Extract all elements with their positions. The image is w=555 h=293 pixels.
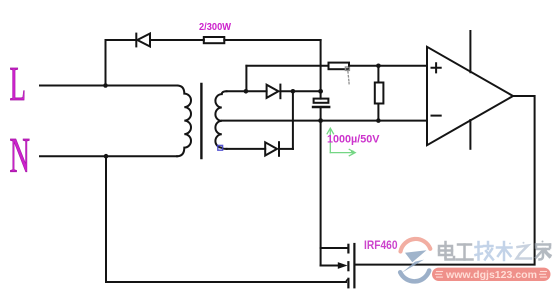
transformer T1 secondary winding — [215, 91, 226, 149]
wire body branch with arrow — [321, 265, 339, 267]
wire bottom source rail — [106, 281, 346, 283]
svg-text:www.dgjs123.com: www.dgjs123.com — [445, 269, 537, 281]
dotted artifact line — [348, 72, 349, 84]
mosfet Q1 channel segment middle — [347, 262, 349, 270]
op-amp power pin top — [469, 31, 471, 72]
resistor R2 body (horizontal small) — [329, 63, 350, 70]
char ji — [476, 242, 494, 260]
svg-text:N: N — [10, 127, 31, 183]
wire after D2 — [280, 90, 320, 92]
wire R3 bottom branch — [377, 104, 379, 121]
wire drain branch upper — [321, 247, 348, 249]
wire R3 top branch — [377, 66, 379, 83]
mosfet Q1 channel segment top — [347, 245, 349, 253]
wire L lead — [40, 85, 177, 87]
diode D3 lower rectifier triangle — [265, 142, 277, 155]
junction dot cap top — [318, 89, 323, 94]
wire after D3 — [279, 148, 293, 150]
watermark logo — [400, 239, 430, 281]
wire secondary center tap rail to op-amp minus — [222, 120, 427, 122]
wire secondary top rail — [227, 90, 267, 92]
wire cap bottom to lower rail and down to mosfet — [320, 107, 322, 266]
char zhi — [517, 242, 532, 259]
diode D1 triangle — [137, 34, 150, 47]
svg-text:L: L — [10, 56, 27, 111]
grip mark (gray) at R2 right end — [345, 67, 349, 70]
junction dot L — [103, 83, 108, 88]
wire N junction down — [105, 156, 107, 282]
wire top rail right segment to corner — [224, 39, 320, 41]
wire top rail middle segment — [150, 39, 204, 41]
op-amp plus marker — [432, 63, 441, 72]
op-amp U1 triangle — [427, 47, 513, 145]
junction dot rectifier out — [291, 89, 296, 94]
wire riser from top junction — [245, 66, 247, 92]
svg-text:IRF460: IRF460 — [364, 238, 398, 252]
op-amp power pin bottom — [469, 120, 471, 149]
char jia — [536, 241, 551, 260]
char gong — [457, 245, 473, 260]
mosfet Q1 gate bar — [353, 244, 355, 287]
junction dot cap bottom rail — [318, 118, 323, 123]
char dian — [439, 242, 454, 260]
junction dot N — [104, 154, 109, 159]
diode D2 cathode bar — [279, 85, 281, 99]
green axis marker — [327, 128, 355, 156]
junction dot secondary top — [244, 89, 249, 94]
op-amp minus marker — [432, 115, 441, 117]
wire D3 riser up to top rail — [292, 91, 294, 149]
resistor R3 body (vertical) — [375, 83, 384, 104]
svg-text:2/300W: 2/300W — [199, 21, 231, 33]
watermark site name glyphs — [439, 241, 551, 261]
mosfet Q1 channel segment bottom — [347, 279, 349, 288]
wire N lead — [40, 155, 177, 157]
resistor R1 2/300W body — [204, 37, 225, 43]
wire top rail left segment — [106, 39, 137, 41]
wire secondary bottom rail — [227, 148, 266, 150]
capacitor C1 bottom plate — [313, 106, 329, 108]
capacitor C1 top plate (box) — [314, 99, 329, 103]
diode D2 upper rectifier triangle — [267, 85, 279, 98]
wire L junction up to top rail — [105, 40, 107, 86]
char shu — [497, 242, 512, 260]
svg-text:1000µ/50V: 1000µ/50V — [327, 133, 380, 145]
junction dot R3 bottom — [376, 118, 381, 123]
watermark ribbon — [432, 268, 551, 281]
wire R2 to op-amp plus input — [349, 65, 427, 67]
grip mark (blue) at secondary bottom — [218, 145, 223, 150]
transformer core — [200, 84, 202, 158]
wire upper mid rail to op-amp plus — [246, 65, 328, 67]
transformer T1 primary winding — [177, 86, 191, 157]
arrow head into mosfet — [338, 262, 348, 269]
diode D3 cathode bar — [278, 142, 280, 156]
diode D1 (pointing left) cathode bar — [135, 34, 137, 47]
wire op-amp output — [355, 96, 535, 265]
junction dot R3 top — [376, 64, 381, 69]
source hook — [346, 280, 349, 282]
wire main vertical rail upper (to cap top) — [320, 40, 322, 99]
